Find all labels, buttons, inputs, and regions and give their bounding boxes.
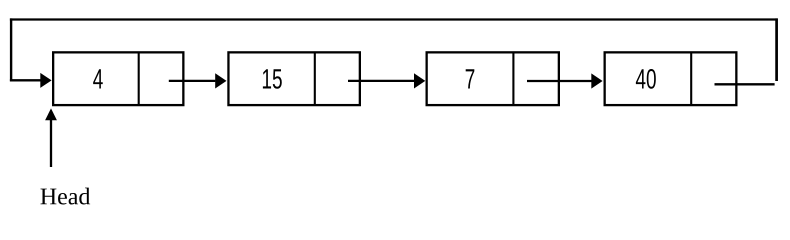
wire: top loop horizontal (node4.next back to head) [10,18,778,20]
wire: N3.next pointer [527,80,592,82]
arrowhead into node3 [414,73,425,88]
label Head [40,188,90,205]
arrowhead into node4 [591,73,602,88]
arrowhead Head to node1 [45,108,57,120]
node N2 value 15 [263,69,282,88]
node N2 divider (data|next) [314,52,316,105]
wire: N1.next pointer [169,80,216,82]
node N3 divider (data|next) [512,52,514,105]
node N4 value 40 [636,69,656,89]
wire: right loop vertical [775,18,778,81]
arrowhead into node2 [215,73,226,88]
wire: N2.next pointer [348,80,414,82]
node N1 box [53,52,183,105]
wire: N4.next pointer out to loop [715,83,775,85]
wire: Head arrow stem [50,120,52,168]
arrowhead into node1 [40,73,51,88]
node N4 box [605,52,737,105]
node N1 divider (data|next) [138,52,140,105]
node N3 box [427,52,559,105]
wire: left loop vertical [10,18,12,81]
node N4 divider (data|next) [690,52,692,105]
node N1 value 4 [93,69,103,88]
node N2 box [228,52,359,105]
wire: loop segment entering node1 [10,79,41,81]
node N3 value 7 [466,69,475,88]
